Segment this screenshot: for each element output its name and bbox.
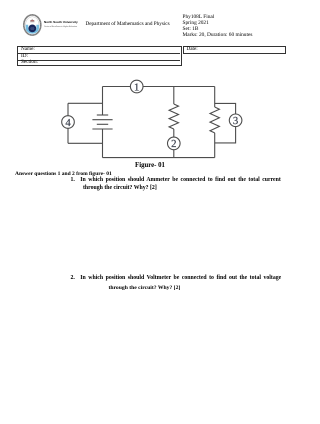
wire meter3 loop bottom — [215, 127, 236, 143]
wire meter4 stub lower — [67, 128, 69, 143]
meter circle 4 — [62, 116, 75, 129]
wire top-left segment — [103, 86, 131, 88]
wire middle branch below resistor — [173, 129, 175, 137]
answer instruction — [15, 172, 112, 178]
wire right branch lower — [214, 133, 216, 158]
meter circle 1 — [130, 80, 143, 93]
svg-text:2: 2 — [171, 138, 176, 150]
header right block — [183, 14, 253, 38]
header: university name — [44, 21, 78, 24]
wire right branch upper — [214, 87, 216, 108]
meter circle 2 — [168, 137, 181, 150]
date cell — [183, 46, 286, 54]
wire middle branch upper — [173, 87, 175, 105]
resistor R1 — [169, 104, 178, 129]
svg-text:4: 4 — [65, 117, 71, 129]
wire top-right segment — [143, 86, 215, 88]
wire meter4 loop bottom — [68, 142, 103, 144]
wire left branch above battery — [102, 87, 104, 116]
name/id/section table — [17, 46, 182, 66]
wire bottom — [103, 157, 215, 159]
meter circle 3 — [229, 114, 242, 127]
resistor R2 — [210, 107, 219, 133]
wire left branch below battery — [102, 129, 104, 158]
wire meter4 stub upper — [67, 103, 69, 115]
wire middle branch lower — [173, 150, 175, 158]
figure caption — [135, 163, 165, 170]
wire meter3 loop top — [215, 103, 236, 114]
wire meter4 loop top — [68, 102, 103, 104]
svg-text:3: 3 — [233, 115, 238, 127]
university logo (NSU seal) — [22, 14, 43, 37]
header: department — [86, 22, 170, 27]
question 1 — [71, 178, 75, 184]
battery B1 — [92, 115, 112, 129]
question 2 — [71, 276, 75, 282]
svg-text:1: 1 — [134, 81, 139, 93]
